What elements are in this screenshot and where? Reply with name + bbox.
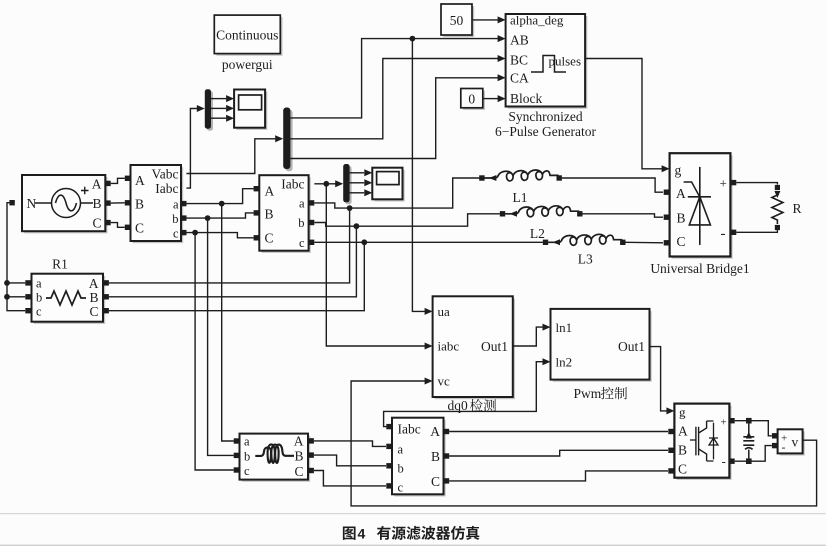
R1 output C pad [104, 308, 109, 313]
mux M1 to scope arrows [211, 95, 234, 122]
caption 图4 有源滤波器仿真 [343, 525, 480, 541]
wire Vabc to bus selector [186, 135, 283, 173]
Vabc/Iabc input A pad [125, 176, 130, 181]
dq0 label [448, 398, 497, 413]
wire pulses to bridge g [585, 59, 669, 173]
svg-text:+: + [720, 176, 727, 191]
filter input b pad [234, 453, 239, 458]
filter output A pad [309, 438, 314, 443]
resistor block R1 [32, 274, 106, 324]
svg-text:Universal Bridge1: Universal Bridge1 [650, 261, 749, 276]
source port N pad [9, 200, 14, 205]
junction iabc tap [323, 181, 329, 187]
filter input a pad [234, 438, 239, 443]
wire b to R1 B [109, 226, 357, 297]
svg-text:C: C [431, 474, 440, 489]
bus selector B1 [283, 108, 292, 172]
Iabc input A pad [254, 186, 259, 191]
svg-text:a: a [398, 442, 404, 456]
wire b to igbt B [449, 450, 668, 456]
svg-text:Vabc: Vabc [152, 166, 179, 181]
wire phase c meas1 to meas2 [186, 233, 253, 238]
v input minus pad [772, 443, 777, 448]
constant 50 [441, 4, 474, 37]
svg-text:Iabc: Iabc [281, 177, 304, 192]
svg-text:A: A [678, 424, 688, 439]
igbt input B pad [668, 448, 673, 453]
wire igbt minus to v minus [735, 446, 772, 462]
svg-text:-: - [722, 454, 726, 469]
bridge1 input A pad [664, 190, 669, 195]
wire phase b to L2 [314, 214, 500, 226]
wire R to bridge minus [736, 230, 777, 233]
wire 0 to Block [484, 95, 506, 102]
L3 label [578, 252, 593, 267]
scope Scope1 [234, 90, 267, 130]
cap bottom tap pad [746, 458, 752, 464]
mux M2 [343, 164, 351, 204]
junction b tap [205, 215, 211, 221]
capacitor C1 [743, 424, 754, 459]
bottom output B pad [444, 453, 449, 458]
svg-text:C: C [89, 304, 98, 319]
svg-text:a: a [244, 435, 250, 449]
svg-text:R1: R1 [52, 257, 68, 272]
junction AB-ua [410, 36, 416, 42]
svg-text:+: + [721, 417, 727, 429]
wire 50 to alpha_deg [473, 16, 506, 23]
universal bridge1 label [650, 261, 749, 276]
svg-text:-: - [782, 440, 786, 454]
wire phase b meas1 to meas2 [186, 213, 253, 218]
R1 input c pad [25, 308, 30, 313]
svg-text:Out1: Out1 [618, 339, 645, 354]
svg-text:B: B [135, 197, 144, 212]
mux M1 [205, 89, 213, 131]
wire c to igbt C [449, 471, 668, 481]
svg-text:a: a [173, 197, 179, 211]
svg-text:b: b [36, 291, 42, 305]
svg-text:powergui: powergui [222, 57, 273, 72]
wire phase a meas1 to meas2 [186, 189, 253, 204]
bottom current measurement block [392, 418, 446, 497]
wire b tap down to filter [208, 218, 234, 455]
Vabc/Iabc input C pad [125, 225, 130, 230]
svg-text:A: A [430, 424, 440, 439]
dq0 detection block [433, 296, 515, 399]
svg-text:BC: BC [510, 52, 528, 67]
Iabc input B pad [254, 210, 259, 215]
pwm label [574, 386, 627, 401]
svg-text:a: a [36, 277, 42, 291]
svg-text:b: b [398, 461, 404, 475]
svg-text:Continuous: Continuous [216, 28, 278, 43]
junction c tap [192, 230, 198, 236]
svg-text:Block: Block [510, 91, 542, 106]
wire L3 to bridge C [625, 241, 663, 244]
svg-text:alpha_deg: alpha_deg [510, 12, 564, 27]
svg-text:B: B [678, 443, 687, 458]
wire bottom Iabc to pwm ln2 [384, 358, 551, 426]
wire ua feed [412, 39, 432, 315]
svg-text:C: C [92, 216, 101, 231]
wire iabc to dq0 [326, 184, 432, 350]
svg-text:a: a [299, 197, 305, 211]
R1 input a pad [25, 280, 30, 285]
bottom input a pad [386, 444, 391, 449]
source port A pad [105, 181, 110, 186]
source port C pad [105, 220, 110, 225]
filter input c pad [234, 467, 239, 472]
wire a to R1 A [109, 208, 350, 283]
Vabc/Iabc input B pad [125, 200, 130, 205]
AC voltage source [22, 175, 108, 233]
svg-text:iabc: iabc [438, 339, 460, 354]
R1 output A pad [104, 280, 109, 285]
igbt input C pad [668, 468, 673, 473]
svg-text:A: A [89, 276, 99, 291]
wire AB to generator [290, 35, 505, 118]
wire L1 to bridge A [562, 178, 663, 192]
wire filter A to iabc a [314, 441, 386, 447]
wire source A to measurement A [111, 178, 125, 183]
Iabc output c pad [309, 240, 314, 245]
current measurement block Iabc [259, 175, 311, 253]
junction a-R1A [347, 205, 353, 211]
svg-text:B: B [265, 207, 274, 222]
svg-text:b: b [298, 216, 304, 230]
wire filter B to iabc b [314, 455, 386, 466]
svg-text:ln2: ln2 [556, 354, 573, 369]
svg-text:A: A [265, 183, 275, 198]
svg-text:b: b [244, 450, 250, 464]
R1 output B pad [104, 294, 109, 299]
svg-text:vc: vc [438, 374, 451, 389]
svg-text:B: B [89, 290, 98, 305]
junction b-R1B [354, 223, 360, 229]
filter inductor block [240, 434, 311, 482]
svg-text:Pwm: Pwm [574, 386, 602, 401]
svg-text:L3: L3 [578, 252, 593, 267]
svg-text:pulses: pulses [549, 54, 582, 69]
wire c to R1 C [109, 242, 364, 310]
R1 label [52, 257, 68, 272]
svg-text:C: C [678, 461, 687, 476]
scope Scope2 [372, 168, 404, 202]
bottom input c pad [386, 483, 391, 488]
svg-text:C: C [265, 231, 274, 246]
wire BC to generator [290, 55, 505, 139]
svg-text:B: B [677, 211, 686, 226]
powergui block [214, 15, 282, 56]
R1 input b pad [25, 294, 30, 299]
mux M2 to scope arrows [350, 169, 373, 196]
voltage measurement block v [778, 429, 805, 455]
svg-text:Synchronized: Synchronized [508, 109, 582, 124]
svg-text:B: B [294, 449, 303, 464]
bottom output A pad [444, 429, 449, 434]
inductor L3 [543, 234, 626, 245]
resistor R [772, 185, 783, 230]
wire source N to R1 inputs [7, 203, 25, 311]
svg-text:C: C [135, 221, 144, 236]
wire phase c to L3 [314, 241, 543, 243]
bridge1 output minus pad [731, 230, 736, 235]
junction c-R1C [361, 239, 367, 245]
wire bridge plus to R [736, 183, 777, 185]
Iabc output b pad [309, 220, 314, 225]
generator label [495, 109, 596, 139]
inductor L1 [479, 170, 562, 181]
universal bridge thyristor block [670, 153, 733, 259]
three-phase VI measurement block Vabc/Iabc [131, 165, 184, 243]
svg-text:4: 4 [358, 525, 366, 541]
svg-text:0: 0 [468, 91, 475, 106]
svg-text:L2: L2 [530, 226, 545, 241]
svg-text:Iabc: Iabc [155, 181, 178, 196]
svg-text:A: A [135, 173, 145, 188]
svg-text:-: - [721, 226, 726, 242]
svg-text:6−Pulse Generator: 6−Pulse Generator [495, 124, 596, 139]
svg-text:Out1: Out1 [481, 339, 508, 354]
wire CA to generator [290, 74, 505, 158]
svg-text:B: B [92, 196, 101, 211]
bridge1 input C pad [664, 240, 669, 245]
svg-text:A: A [92, 177, 102, 192]
wire dq0 out to pwm ln1 [513, 324, 551, 346]
svg-text:A: A [294, 434, 304, 449]
cap top tap pad [746, 418, 752, 424]
bottom Iabc output pad [386, 424, 391, 429]
svg-text:c: c [299, 236, 305, 250]
wire a tap down to filter [222, 204, 234, 441]
svg-text:c: c [36, 305, 42, 319]
svg-text:c: c [398, 481, 404, 495]
svg-text:ua: ua [438, 304, 451, 319]
Vabc/Iabc output c pad [181, 230, 186, 235]
Vabc/Iabc output a pad [181, 201, 186, 206]
filter output B pad [309, 452, 314, 457]
wire igbt plus to v plus [735, 421, 772, 436]
junction N-a [4, 280, 10, 286]
R label [793, 201, 802, 216]
wire filter C to iabc c [314, 471, 386, 486]
wire phase a to L1 [314, 178, 480, 208]
wire L2 to bridge B [582, 214, 663, 217]
Iabc input C pad [254, 235, 259, 240]
wire v to dq0 vc [351, 378, 816, 506]
wire source B to measurement B [111, 202, 125, 204]
svg-text:g: g [675, 163, 682, 178]
pwm control block [551, 309, 652, 382]
junction N-b [4, 294, 10, 300]
svg-text:Iabc: Iabc [398, 421, 421, 436]
source port B pad [105, 200, 110, 205]
svg-text:v: v [792, 435, 799, 450]
svg-text:L1: L1 [513, 190, 528, 205]
L2 label [530, 226, 545, 241]
svg-text:50: 50 [450, 13, 464, 28]
svg-text:A: A [676, 186, 686, 201]
svg-text:AB: AB [510, 32, 529, 47]
bridge1 input B pad [664, 215, 669, 220]
svg-text:g: g [679, 405, 686, 420]
Iabc output a pad [309, 200, 314, 205]
svg-text:N: N [27, 196, 37, 211]
igbt input A pad [668, 429, 673, 434]
powergui label [222, 57, 273, 72]
svg-text:B: B [431, 449, 440, 464]
igbt bridge block [674, 404, 731, 480]
bridge1 output plus pad [731, 180, 736, 185]
bottom input b pad [386, 463, 391, 468]
L1 label [513, 190, 528, 205]
igbt output minus pad [729, 459, 734, 464]
synchronized 6-pulse generator U1 [506, 12, 588, 108]
svg-text:R: R [793, 201, 802, 216]
wire Iabc to mux M1 [186, 105, 204, 188]
svg-text:C: C [677, 234, 686, 249]
wire a to igbt A [449, 431, 668, 433]
igbt output plus pad [729, 418, 734, 423]
v input plus pad [772, 433, 777, 438]
svg-text:ln1: ln1 [556, 320, 573, 335]
wire pwm out to igbt g [650, 347, 675, 415]
svg-text:CA: CA [510, 71, 529, 86]
svg-text:C: C [294, 464, 303, 479]
wire c tap down to filter [195, 233, 234, 470]
svg-text:c: c [173, 226, 179, 240]
wire source C to measurement C [111, 223, 125, 228]
filter output C pad [309, 468, 314, 473]
Vabc/Iabc output b pad [181, 215, 186, 220]
bottom output C pad [444, 478, 449, 483]
svg-text:c: c [244, 464, 250, 478]
inductor L2 [500, 206, 583, 217]
constant 0 [461, 89, 485, 111]
junction a tap [219, 201, 225, 207]
svg-text:b: b [172, 212, 178, 226]
wire Iabc2 to mux M2 [314, 180, 343, 187]
